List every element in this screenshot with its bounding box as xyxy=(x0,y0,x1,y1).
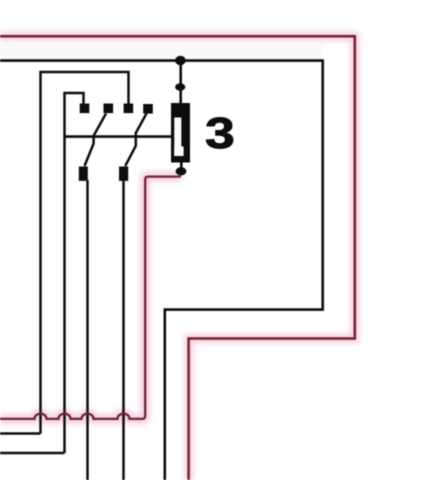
switch contact terminal S3 xyxy=(124,104,134,114)
wire: bottom-left exit of wire B xyxy=(0,452,65,455)
switch arm S2 (upper left lever) xyxy=(94,114,106,136)
wire: stub below resistor 3 xyxy=(180,163,183,169)
wire: red outer conductor glow xyxy=(0,36,355,480)
wire: pink glow of lower red conductor xyxy=(0,177,181,419)
wire: drop from S5 to bottom edge xyxy=(86,180,89,480)
switch contact terminal S6 xyxy=(119,167,128,181)
switch contact terminal S4 xyxy=(143,104,153,114)
terminal dot above resistor 3 xyxy=(175,83,185,90)
wire: vertical drop to resistor 3 xyxy=(179,61,182,105)
junction dot on top line xyxy=(175,56,186,65)
wire: bottom-left exit of wire A xyxy=(0,432,41,435)
junction dot below resistor 3 xyxy=(176,167,187,175)
wire: stub below bus left xyxy=(92,135,95,144)
switch contact terminal S2 xyxy=(104,104,114,114)
wire: drop from S6 to bottom edge xyxy=(122,180,125,480)
wire: black border conductor (inner line) xyxy=(0,61,323,480)
wire: stub across bus right xyxy=(135,133,138,147)
wire A: left bus with corner, to contact S3 xyxy=(41,72,129,434)
resistor 3 body xyxy=(171,103,190,163)
svg-text:3: 3 xyxy=(205,109,235,157)
wire: horizontal switch bus to resistor 3 xyxy=(65,135,172,138)
switch contact terminal S1 xyxy=(80,104,90,114)
switch contact terminal S5 xyxy=(79,167,88,181)
wire: red border conductor (outer supply line) xyxy=(0,36,355,480)
wire B: second left bus with corner, to contact S1 xyxy=(65,93,84,453)
switch arm S4 (upper right lever) xyxy=(136,114,147,134)
switch arm S5 (lower left lever) xyxy=(85,144,94,167)
switch arm S6 (lower right lever) xyxy=(125,146,136,166)
wire: red return conductor with crossover hops xyxy=(0,177,181,419)
